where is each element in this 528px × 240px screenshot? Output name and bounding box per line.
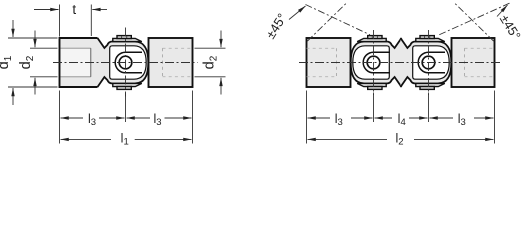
leader right xyxy=(497,5,508,17)
extension line right end xyxy=(192,91,194,144)
swivel line A right xyxy=(454,2,494,41)
extension line left end xyxy=(306,91,308,144)
swivel line B right xyxy=(438,3,510,35)
svg-text:l1: l1 xyxy=(121,131,129,147)
centerline horizontal right view xyxy=(299,62,502,64)
fork and pin joint 1 xyxy=(363,52,390,73)
joint 2 (module) xyxy=(401,36,452,90)
left shaft hidden bore xyxy=(307,47,337,49)
centerline horizontal left view xyxy=(53,62,198,64)
svg-text:l3: l3 xyxy=(88,112,96,128)
svg-text:l3: l3 xyxy=(153,112,161,128)
svg-text:l3: l3 xyxy=(458,112,466,128)
fork and pin xyxy=(115,52,142,73)
centerline vertical left view joint xyxy=(125,28,127,97)
swivel line B left xyxy=(306,5,371,35)
extension line joint 1 centre xyxy=(373,93,375,123)
joint (bell yoke, fork, pin) xyxy=(98,36,149,90)
svg-text:d1: d1 xyxy=(0,55,14,69)
svg-text:d2: d2 xyxy=(18,55,36,69)
svg-text:±45°: ±45° xyxy=(263,11,290,42)
extension line right end xyxy=(494,91,496,144)
dimension t xyxy=(59,5,61,37)
right shaft hidden bore xyxy=(163,47,193,49)
dimension l2 xyxy=(308,138,388,140)
svg-text:l2: l2 xyxy=(395,131,403,147)
svg-text:t: t xyxy=(72,2,76,17)
right shaft body xyxy=(149,38,193,87)
left shaft body xyxy=(307,38,351,87)
dimension l3 left xyxy=(61,117,84,119)
dimension l3 right xyxy=(127,117,151,119)
centerline vertical joint 2 xyxy=(428,30,430,95)
dimension d2 right xyxy=(195,47,226,49)
dimension l3 left xyxy=(308,117,331,119)
dimension l1 xyxy=(61,138,112,140)
dimension d1 xyxy=(8,37,58,39)
right shaft hidden bore xyxy=(465,47,495,49)
dimension l4 xyxy=(375,117,393,119)
dimension l3 right xyxy=(430,117,454,119)
left shaft bore xyxy=(61,48,91,77)
right shaft body xyxy=(452,38,495,87)
centerline vertical joint 1 xyxy=(373,30,375,95)
svg-text:±45°: ±45° xyxy=(497,12,524,43)
svg-text:l4: l4 xyxy=(398,112,406,128)
svg-text:l3: l3 xyxy=(335,112,343,128)
dimension d2 left xyxy=(30,47,58,49)
extension line joint 2 centre xyxy=(428,93,430,123)
left shaft body xyxy=(60,38,98,87)
fork and pin joint 2 xyxy=(418,52,445,73)
joint 1 (mirrored module) xyxy=(351,36,402,90)
extension line joint centre xyxy=(125,93,127,123)
swivel line A left (dash-dot 45 deg) xyxy=(308,2,348,41)
svg-text:d2: d2 xyxy=(202,55,220,69)
extension line left end xyxy=(59,91,61,144)
leader left xyxy=(289,6,306,20)
